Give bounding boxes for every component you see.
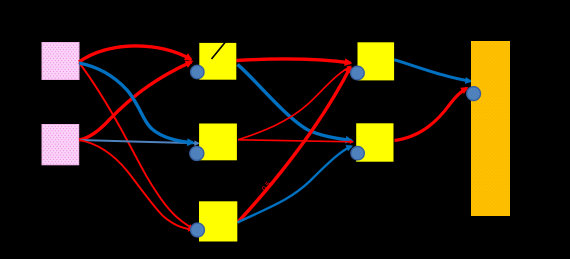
input square X2 [42,125,79,165]
hidden square H1 [199,43,236,80]
hidden square H3 [199,201,237,241]
wire X2 to H1 (thick red curve) [79,62,192,140]
hidden square H2 [199,124,237,161]
wire H1 to H4 (thick red line) [237,59,351,63]
wire H3 to H4 (thick red diagonal) [238,67,351,223]
node circle C6 [467,87,481,101]
annotation line in H1 [212,42,226,59]
hidden square H4 [358,42,395,80]
wire H2 to H5 (thin red line) [238,140,353,142]
wire H1 to H5 (thick blue S-curve) [238,65,352,141]
wire X1 to H2 (thick blue S-curve) [79,63,193,143]
input square X1 [42,43,79,80]
hidden square H5 [356,123,393,161]
wire H2 to H4 (thin red curve) [238,67,351,140]
node circle C1 [191,65,204,78]
node circle C2 [190,146,204,160]
wire X2 to H3 (thin red curve) [79,140,192,230]
wire X2 to H2 (steel straight line) [79,140,199,143]
wire H3 to H5 (blue curve) [238,146,352,222]
node circle C3 [191,223,205,237]
wire H4 to output (blue curve) [394,60,470,81]
node circle C5 [351,147,364,160]
output rectangle [471,41,510,216]
wire H5 to output (red curve) [395,88,467,141]
wire X1 to H1 (thick red arc) [79,46,191,62]
wire X1 to H3 (thin red curve) [79,63,193,229]
node circle C4 [351,66,365,80]
